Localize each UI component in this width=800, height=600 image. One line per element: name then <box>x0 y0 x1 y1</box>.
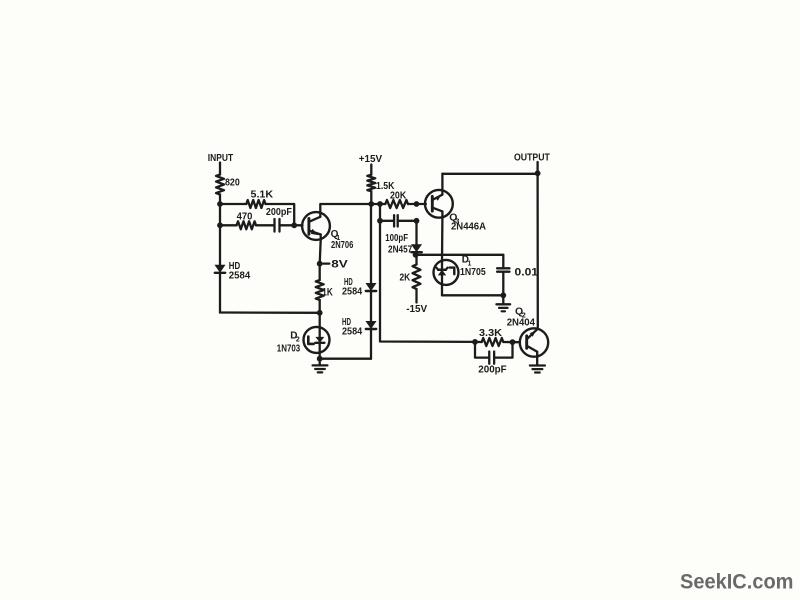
node OUTPUT junction <box>535 170 541 176</box>
label 2N446A <box>451 222 486 233</box>
node rail junction B <box>377 201 383 207</box>
wire diode column lower <box>370 330 372 359</box>
svg-text:OUTPUT: OUTPUT <box>514 153 550 164</box>
label Q1 <box>331 229 341 242</box>
svg-text:-15V: -15V <box>406 303 427 315</box>
node D2 bottom junction <box>317 356 323 362</box>
svg-text:200pF: 200pF <box>478 364 507 376</box>
wire 100pF right lead <box>398 220 417 222</box>
wire diode to node D <box>415 253 417 255</box>
zener diode D1 <box>434 260 459 285</box>
resistor R 20K <box>385 200 408 208</box>
label -8V <box>323 258 348 270</box>
resistor R 5.1K <box>246 200 265 208</box>
label 200pF feedback <box>478 364 507 376</box>
node 3.3K right <box>510 339 516 345</box>
label Q3 <box>449 212 459 226</box>
wire OUTPUT column down to Q2 <box>536 174 539 329</box>
svg-text:0.01: 0.01 <box>515 266 539 278</box>
label 2K <box>400 272 411 284</box>
wire rail A-B <box>371 203 385 205</box>
label 2584 mid upper <box>342 286 363 297</box>
wire Q1 emitter <box>320 240 321 264</box>
wire D1 bottom lead <box>441 285 443 296</box>
wire emitter to 1K <box>319 264 321 280</box>
label 0.01 <box>515 266 539 278</box>
svg-text:2N706: 2N706 <box>331 240 354 251</box>
svg-text:2N457: 2N457 <box>388 244 413 255</box>
label 2N706 <box>331 240 354 251</box>
svg-text:100pF: 100pF <box>385 233 408 244</box>
wire 3.3K leads <box>475 341 520 344</box>
wire diode column middle <box>370 292 372 322</box>
label HD mid upper <box>344 277 353 288</box>
wire left column down to diode <box>219 225 221 265</box>
wire node C to Q3 base <box>417 203 426 205</box>
transistor Q3 <box>425 190 453 218</box>
node rail junction C <box>414 201 420 207</box>
svg-text:SeekIC.com: SeekIC.com <box>680 571 794 594</box>
node E bottom junction <box>500 292 506 298</box>
svg-text:470: 470 <box>237 210 253 222</box>
svg-text:2584: 2584 <box>229 270 251 281</box>
capacitor C 200pF feedback <box>489 352 494 364</box>
wire 0.01 top lead <box>502 255 504 267</box>
wire D2 ground stub <box>319 359 321 366</box>
wire input column to 470 node <box>219 195 221 226</box>
resistor R 2K <box>413 265 421 290</box>
resistor R 1.5K <box>367 175 375 192</box>
wire 470 to cap <box>256 224 274 226</box>
label 20K <box>390 190 407 201</box>
node OUTPUT terminal label <box>514 153 550 164</box>
svg-text:2N446A: 2N446A <box>451 222 486 233</box>
svg-text:2N404: 2N404 <box>507 317 535 329</box>
wire 0.01 bottom lead <box>502 272 504 296</box>
wire 470 left lead <box>220 224 237 226</box>
svg-text:200pF: 200pF <box>266 207 292 218</box>
node INPUT terminal label <box>208 153 233 164</box>
transistor Q2 <box>520 328 548 356</box>
diode HD2584 middle upper <box>366 284 376 292</box>
node -15V terminal label <box>406 303 427 315</box>
node 3.3K left <box>472 339 478 345</box>
transistor Q1 <box>302 212 330 240</box>
node -8V junction <box>317 261 323 267</box>
diode HD2584 left <box>215 265 225 273</box>
wire node D to 2K <box>415 255 417 265</box>
wire 1.5K to rail <box>370 191 372 204</box>
wire Q1 collector <box>320 204 371 212</box>
node rail junction A <box>368 201 374 207</box>
wire D1 to node E <box>442 294 503 296</box>
label HD mid lower <box>342 317 351 328</box>
svg-text:8V: 8V <box>331 258 348 270</box>
svg-text:2584: 2584 <box>342 286 363 297</box>
wire cap to Q1 base <box>280 224 303 226</box>
label 3.3K <box>479 328 503 339</box>
label 200pF input <box>266 207 292 218</box>
wire Q3 collector up <box>441 174 443 190</box>
resistor R 820 <box>216 175 224 195</box>
wire diode column upper <box>370 204 372 283</box>
wire input stub <box>219 163 221 175</box>
label 2584 left <box>229 270 251 281</box>
wire node D to cap branch <box>417 254 504 256</box>
resistor R 1K <box>316 280 324 300</box>
svg-text:820: 820 <box>225 178 240 189</box>
label HD left <box>229 261 240 272</box>
watermark SeekIC.com <box>680 571 794 594</box>
wire 2K to -15V <box>415 289 417 303</box>
label 1N703 <box>277 343 301 354</box>
node 100pF left <box>377 218 383 224</box>
label 2584 mid lower <box>342 326 363 337</box>
wire 5.1K right lead <box>266 204 295 225</box>
svg-text:20K: 20K <box>390 190 407 201</box>
label 1N705 <box>460 266 486 278</box>
label 5.1K <box>251 189 274 200</box>
wire node to D2 <box>319 313 321 328</box>
svg-text:1N703: 1N703 <box>277 343 301 354</box>
label 2N404 <box>507 317 535 329</box>
node junction base <box>291 222 297 228</box>
diode HD2584 middle lower <box>366 322 376 330</box>
wire B down to cap wire <box>379 204 381 221</box>
wire +15V stub <box>370 165 372 175</box>
svg-text:2584: 2584 <box>342 326 363 337</box>
svg-text:5.1K: 5.1K <box>251 189 274 200</box>
label D2 <box>290 331 300 344</box>
label 820 <box>225 178 240 189</box>
capacitor C 200pF input <box>275 219 280 232</box>
wire 20K to node C <box>408 203 417 205</box>
svg-text:+15V: +15V <box>359 153 382 165</box>
node junction 470 <box>217 222 223 228</box>
ground under Q2 <box>530 366 545 373</box>
capacitor C 100pF <box>394 215 398 226</box>
wire 100pF left lead <box>380 220 394 222</box>
wire 5.1K left lead <box>220 203 246 205</box>
resistor R 3.3K <box>482 338 504 346</box>
wire ground stub E <box>502 295 504 304</box>
node junction D <box>413 252 419 258</box>
wire D2 to ground node <box>319 353 321 360</box>
wire collector rail to OUTPUT <box>442 173 537 175</box>
zener diode D2 <box>304 327 330 353</box>
wire Q2 emitter stub <box>536 357 538 366</box>
label D1 <box>462 255 472 268</box>
wire 100pF node down to diode <box>415 221 417 245</box>
ground under node E <box>496 304 510 311</box>
node +15V terminal label <box>359 153 382 165</box>
node feedback junction <box>317 310 323 316</box>
wire long base wire <box>380 221 475 342</box>
wire bottom-left horizontal <box>220 311 320 314</box>
diode 2N457 <box>411 245 421 253</box>
ground under D2 <box>313 365 328 372</box>
node junction 5.1K <box>217 201 223 207</box>
resistor R 470 <box>237 221 256 229</box>
wire Q3 emitter down to D1 <box>441 218 444 262</box>
label 1K <box>322 286 333 298</box>
capacitor C 0.01 <box>497 268 509 271</box>
label 1.5K <box>376 180 395 192</box>
wire 1K to node <box>319 300 321 313</box>
label 2N457 <box>388 244 413 255</box>
node 100pF right <box>414 218 420 224</box>
label Q2 <box>515 306 526 320</box>
label 100pF <box>385 233 408 244</box>
wire OUTPUT stub <box>536 162 538 174</box>
svg-text:2K: 2K <box>400 272 411 284</box>
svg-text:3.3K: 3.3K <box>479 328 503 339</box>
svg-text:1N705: 1N705 <box>460 266 486 278</box>
label 470 <box>237 210 253 222</box>
wire left column bottom <box>219 274 221 313</box>
svg-text:1K: 1K <box>322 286 333 298</box>
wire D2 node to diode column <box>320 358 371 360</box>
wire 200pF loop <box>475 342 513 358</box>
